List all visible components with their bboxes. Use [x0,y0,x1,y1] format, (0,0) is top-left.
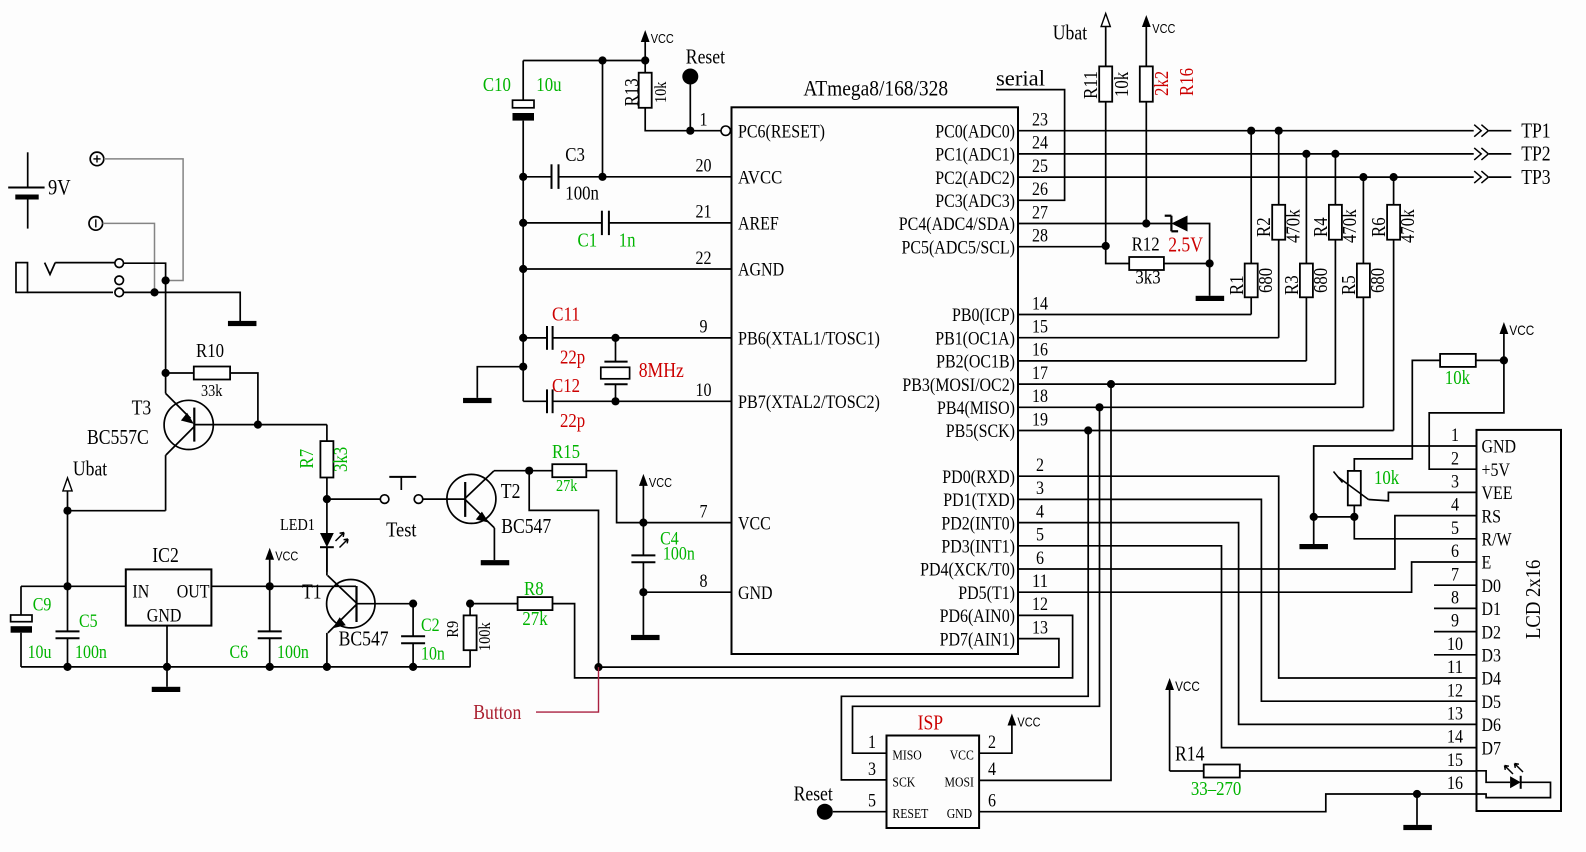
junction C3 right [598,173,606,181]
svg-text:10u: 10u [28,642,52,663]
junction Ubat node [63,507,71,515]
svg-text:3: 3 [868,759,876,780]
wire PB0 to R1 [1018,314,1251,316]
zener diode D1 2.5V [1165,216,1210,264]
wire PB5 to R6 [1018,430,1394,432]
potentiometer 10k contrast [1334,471,1477,517]
svg-text:5: 5 [868,791,876,812]
resistor R12 [1106,246,1210,270]
svg-text:VCC: VCC [651,31,674,46]
wire C4 to ground [642,592,644,635]
ground crystal [463,398,492,403]
wire pot bottom to RW [1354,517,1476,539]
wire Button label pointer [536,667,599,712]
svg-text:1n: 1n [619,230,636,252]
svg-text:D3: D3 [1482,646,1502,667]
svg-text:10k: 10k [1111,72,1133,97]
junction R2 top [1275,127,1283,135]
svg-text:D4: D4 [1482,669,1502,690]
svg-text:PD4(XCK/T0): PD4(XCK/T0) [920,560,1015,581]
junction R6 top [1390,173,1398,181]
svg-text:PB6(XTAL1/TOSC1): PB6(XTAL1/TOSC1) [738,329,880,350]
power VCC arrow ISP [979,714,1040,754]
svg-text:8MHz: 8MHz [639,358,684,382]
junction crystal bottom [611,397,619,405]
wire TP3 line [1018,176,1474,178]
svg-text:1: 1 [868,732,876,753]
capacitor C4 100n [631,523,655,593]
svg-text:AGND: AGND [738,260,784,281]
svg-text:PB4(MISO): PB4(MISO) [937,398,1015,419]
svg-text:26: 26 [1032,179,1048,200]
wire LCD pin1 gnd [1314,446,1477,544]
svg-text:PD2(INT0): PD2(INT0) [941,513,1015,534]
svg-text:470k: 470k [1283,209,1305,243]
svg-text:5: 5 [1036,525,1044,546]
svg-text:VEE: VEE [1482,483,1513,504]
power Ubat arrow right [1101,14,1110,67]
svg-text:C5: C5 [79,611,98,632]
svg-text:470k: 470k [1339,209,1361,243]
svg-text:VCC: VCC [738,513,771,534]
svg-text:LCD 2x16: LCD 2x16 [1521,560,1545,639]
svg-text:25: 25 [1032,156,1048,177]
svg-text:15: 15 [1447,750,1463,771]
ground jack sleeve [228,321,257,326]
svg-text:PC4(ADC4/SDA): PC4(ADC4/SDA) [899,214,1015,235]
wire VCC node to T1 base [269,586,271,631]
wire battery minus to jack sleeve node [103,223,155,292]
pushbutton Test [327,477,465,504]
wire stub D1 [1434,607,1477,609]
wire down to C3 right [602,61,604,177]
junction gnd stub [519,363,527,371]
svg-text:8: 8 [700,571,708,592]
svg-text:100n: 100n [75,642,107,663]
svg-text:9: 9 [700,317,708,338]
svg-text:10: 10 [696,380,712,401]
junction C3 vertical top [598,56,606,64]
svg-text:19: 19 [1032,409,1048,430]
wire pot gnd link [1314,516,1355,518]
svg-text:6: 6 [1036,548,1044,569]
junction sleeve-battery minus [150,288,158,296]
svg-text:D6: D6 [1482,715,1502,736]
svg-text:D0: D0 [1482,576,1502,597]
wire PB3 to ISP MOSI [979,384,1111,780]
junction R10 left [162,369,170,377]
resistor R4 [1329,154,1342,384]
svg-text:23: 23 [1032,110,1048,131]
svg-text:Ubat: Ubat [73,457,107,481]
svg-text:MISO: MISO [892,748,921,763]
junction reset node [686,127,694,135]
junction R12 right [1206,259,1214,267]
svg-text:R8: R8 [524,578,544,600]
svg-text:IN: IN [132,581,149,602]
svg-text:SCK: SCK [892,776,915,791]
svg-text:10u: 10u [536,74,561,96]
svg-text:4: 4 [1036,501,1044,522]
svg-text:TP2: TP2 [1521,142,1550,166]
svg-text:470k: 470k [1397,209,1419,243]
svg-text:BC547: BC547 [339,627,389,651]
svg-text:PC5(ADC5/SCL): PC5(ADC5/SCL) [902,237,1016,258]
svg-text:serial: serial [996,66,1045,91]
junction PB4 ISP [1095,403,1103,411]
svg-text:21: 21 [696,202,712,223]
resistor R6 [1387,177,1400,430]
svg-text:PD0(RXD): PD0(RXD) [942,467,1015,488]
svg-text:22p: 22p [560,410,585,432]
wire C10 to R13 top [523,60,645,62]
power VCC arrow R14 [1165,678,1200,771]
power VCC arrow right [1142,15,1176,66]
svg-text:C9: C9 [33,595,52,616]
svg-text:3: 3 [1451,472,1459,493]
svg-text:6: 6 [1451,541,1459,562]
svg-text:3: 3 [1036,478,1044,499]
connector ISP body [887,736,980,829]
power VCC arrow at C6 [265,548,298,587]
svg-text:Reset: Reset [686,45,725,69]
svg-text:D2: D2 [1482,622,1502,643]
svg-text:BC547: BC547 [501,514,551,538]
svg-text:PB5(SCK): PB5(SCK) [946,421,1015,442]
junction PB3 ISP [1107,380,1115,388]
svg-text:R11: R11 [1080,71,1102,99]
svg-text:680: 680 [1255,268,1277,293]
svg-text:RESET: RESET [892,807,928,822]
junction VCC pin7 node [639,519,647,527]
svg-text:IC2: IC2 [152,543,179,567]
svg-text:GND: GND [1482,437,1517,458]
svg-text:C3: C3 [565,144,585,166]
capacitor C9 10u electrolytic [11,586,32,667]
svg-text:R4: R4 [1310,217,1332,237]
svg-text:MOSI: MOSI [945,776,975,791]
lcd module LCD 2x16 body [1477,430,1562,811]
wire serial flag [996,90,1065,201]
svg-text:D5: D5 [1482,692,1502,713]
svg-text:27: 27 [1032,202,1048,223]
wire Button node to PD7 [599,639,1059,668]
svg-text:11: 11 [1032,571,1048,592]
svg-text:16: 16 [1447,773,1463,794]
svg-text:R10: R10 [196,340,224,362]
junction R3 top [1302,150,1310,158]
svg-text:7: 7 [1451,564,1459,585]
svg-text:100n: 100n [663,544,695,565]
wire zener to ground [1209,264,1211,296]
resistor R1 [1245,131,1258,315]
junction T2 collector node [525,467,533,475]
power VCC arrow at C4 [639,474,672,523]
svg-text:VCC: VCC [1509,322,1534,338]
svg-text:5: 5 [1451,518,1459,539]
svg-text:Reset: Reset [794,781,833,805]
wire PB1 to R2 [1018,337,1279,339]
junction R7 bottom [323,495,331,503]
svg-text:4: 4 [988,759,996,780]
svg-text:16: 16 [1032,340,1048,361]
ground C4 [631,635,660,640]
svg-text:C2: C2 [421,615,440,636]
junction C2 top [409,600,417,608]
svg-text:C6: C6 [230,642,249,663]
wire stub D3 [1434,654,1477,656]
wire PD0 to LCD D4 [1018,476,1477,678]
svg-text:PC1(ADC1): PC1(ADC1) [935,145,1015,166]
junction GND pin8 node [639,588,647,596]
svg-text:24: 24 [1032,133,1048,154]
svg-text:AVCC: AVCC [738,168,782,189]
junction R11 bottom [1102,242,1110,250]
node A junction [162,276,170,284]
capacitor C12 22p [547,389,732,413]
junction R5 top [1359,173,1367,181]
wire PB5 to ISP SCK [841,431,1088,780]
resistor R16 [1140,66,1153,223]
wire AVCC [603,176,732,178]
crystal Q1 8MHz [601,338,630,401]
resistor R15 [529,464,643,522]
junction IC2 gnd [163,663,171,671]
svg-text:33–270: 33–270 [1191,778,1241,800]
wire GND node to chip pin8 [643,591,731,593]
svg-text:22p: 22p [560,347,585,369]
svg-text:TP3: TP3 [1521,165,1550,189]
resistor R10 [166,367,258,425]
svg-text:3k3: 3k3 [330,447,352,472]
capacitor C1 1n [523,211,731,235]
svg-text:680: 680 [1367,268,1389,293]
svg-text:T1: T1 [302,580,322,604]
junction crystal top [611,334,619,342]
svg-text:GND: GND [738,583,773,604]
svg-text:6: 6 [988,791,996,812]
resistor R2 [1272,131,1285,338]
svg-text:PC3(ADC3): PC3(ADC3) [935,191,1015,212]
wire PB2 to R3 [1018,360,1306,362]
wire Ubat node down to IC2 IN [67,511,69,587]
power Ubat arrow [63,478,72,511]
svg-text:12: 12 [1032,594,1048,615]
pin circle PC6 reset [721,126,730,135]
svg-text:GND: GND [947,807,973,822]
power jack J1 [16,259,123,297]
svg-text:9: 9 [1451,611,1459,632]
wire PB3 to R4 [1018,383,1335,385]
junction C2 bottom [409,663,417,671]
svg-text:PD3(INT1): PD3(INT1) [941,537,1015,558]
svg-text:13: 13 [1447,704,1463,725]
svg-text:GND: GND [147,606,182,627]
svg-text:ATmega8/168/328: ATmega8/168/328 [803,75,948,100]
wire TP2 line [1018,153,1474,155]
svg-text:LED1: LED1 [280,515,315,534]
wire PC4 to zener [1018,223,1171,225]
wire into IC2 IN [21,585,126,587]
svg-text:T3: T3 [132,396,152,420]
junction T1 emitter rail [323,663,331,671]
junction C3 left [519,173,527,181]
svg-text:R6: R6 [1368,217,1390,237]
svg-text:7: 7 [700,501,708,522]
junction R4 top [1331,150,1339,158]
svg-text:20: 20 [696,156,712,177]
svg-text:R14: R14 [1175,742,1205,766]
junction pot bottom [1350,513,1358,521]
svg-text:PB2(OC1B): PB2(OC1B) [936,352,1015,373]
svg-text:PC6(RESET): PC6(RESET) [738,121,825,142]
svg-text:100k: 100k [475,622,494,651]
junction T3 base [254,421,262,429]
svg-text:OUT: OUT [177,581,210,602]
svg-text:+5V: +5V [1482,460,1511,481]
svg-text:PB0(ICP): PB0(ICP) [952,305,1015,326]
wire IC2 OUT to T1 [211,585,269,587]
wire PD4 to LCD RS [1018,516,1477,569]
node TP1 chevron [1474,125,1511,137]
wire VCC to LCD 5V [1429,360,1504,469]
led LED1 [320,499,348,572]
svg-text:PD1(TXD): PD1(TXD) [943,490,1015,511]
svg-text:ISP: ISP [918,711,944,735]
ground LCD [1403,825,1432,830]
transistor T2 BC547 [447,471,496,560]
svg-text:R13: R13 [621,78,643,106]
svg-text:VCC: VCC [1175,678,1200,694]
wire node A down to R10/T3 [165,281,167,374]
svg-text:R5: R5 [1338,275,1360,295]
svg-text:R2: R2 [1253,217,1275,237]
svg-text:100n: 100n [565,182,599,204]
pushbutton Reset top [682,69,698,131]
resistor R8 [470,597,1073,678]
junction R1 top [1247,127,1255,135]
junction VCC out node [266,582,274,590]
svg-text:C12: C12 [552,375,580,397]
svg-text:2: 2 [1036,455,1044,476]
svg-text:D1: D1 [1482,599,1502,620]
svg-text:10k: 10k [651,81,670,103]
svg-text:2.5V: 2.5V [1168,233,1203,257]
pushbutton Reset ISP [817,804,887,820]
svg-text:VCC: VCC [275,549,298,564]
wire PB6 xtal1 [523,337,547,339]
battery BT1 9V [8,152,44,228]
svg-text:1: 1 [700,110,708,131]
svg-text:VCC: VCC [1152,21,1175,36]
svg-text:R15: R15 [552,441,580,463]
wire battery plus to node A [104,159,183,281]
capacitor C2 10n [401,604,425,667]
svg-text:1: 1 [1451,425,1459,446]
svg-text:R7: R7 [296,449,318,469]
svg-text:VCC: VCC [950,748,974,763]
svg-text:D7: D7 [1482,738,1502,759]
capacitor C5 100n [56,586,80,667]
wire jack tip to node A [124,263,166,280]
svg-text:33k: 33k [201,381,223,400]
svg-text:15: 15 [1032,317,1048,338]
svg-text:9V: 9V [48,175,71,200]
svg-text:VCC: VCC [1017,715,1040,730]
junction C6 bottom [266,663,274,671]
wire PD5 to LCD E [1018,562,1477,592]
wire PB4 to ISP MISO [853,407,1100,753]
svg-text:PB1(OC1A): PB1(OC1A) [935,328,1015,349]
svg-text:VCC: VCC [649,475,672,490]
svg-text:11: 11 [1447,657,1463,678]
junction Button node [594,663,602,671]
svg-text:R12: R12 [1132,234,1160,256]
svg-text:R1: R1 [1226,275,1248,295]
power VCC arrow at R13 [641,30,674,61]
svg-text:14: 14 [1447,727,1463,748]
junction R13 top [641,56,649,64]
svg-text:C11: C11 [552,303,580,325]
wire VCC node to chip pin7 [643,522,731,524]
svg-text:PC2(ADC2): PC2(ADC2) [935,168,1015,189]
wire jack sleeve to ground [124,292,241,321]
svg-text:PB7(XTAL2/TOSC2): PB7(XTAL2/TOSC2) [738,392,880,413]
battery minus terminal [89,217,103,231]
ground LCD pin1 [1299,544,1328,549]
svg-text:AREF: AREF [738,214,779,235]
transistor T1 BC547 [327,547,414,667]
svg-text:2k2: 2k2 [1151,71,1173,96]
svg-text:PB3(MOSI/OC2): PB3(MOSI/OC2) [902,375,1015,396]
capacitor C6 100n [258,631,282,667]
resistor R11 [1099,66,1112,246]
ground zener [1196,296,1225,301]
capacitor C10 10u electrolytic [513,61,535,402]
svg-text:PD7(AIN1): PD7(AIN1) [940,629,1015,650]
wire PD2 to LCD D6 [1018,523,1477,725]
svg-text:10: 10 [1447,634,1463,655]
svg-text:Test: Test [386,518,417,542]
svg-text:18: 18 [1032,386,1048,407]
wire PD1 to LCD D5 [1018,499,1477,701]
wire ground rail [21,666,471,668]
capacitor C11 22p [547,326,732,350]
regulator IC2 [126,569,212,625]
svg-text:10n: 10n [421,644,445,665]
svg-text:Button: Button [473,700,521,724]
junction R16 bottom [1142,219,1150,227]
resistor R3 [1300,154,1313,361]
resistor R7 [320,425,333,500]
wire IC2 GND lead [166,626,168,687]
svg-text:R16: R16 [1176,68,1198,96]
wire T3 collector to IC2 input [68,510,166,512]
svg-text:E: E [1482,553,1492,574]
resistor R9 [464,604,477,667]
wire T2 collector node to Button node [529,471,598,667]
junction PB5 ISP [1084,426,1092,434]
junction LCD gnd node [1413,790,1421,798]
junction VCC LCD [1500,356,1508,364]
svg-text:8: 8 [1451,588,1459,609]
svg-text:22: 22 [696,248,712,269]
svg-text:C1: C1 [578,230,598,252]
transistor T3 BC557C [164,373,327,511]
svg-text:Ubat: Ubat [1053,21,1087,45]
svg-text:PD5(T1): PD5(T1) [958,583,1015,604]
svg-text:4: 4 [1451,495,1459,516]
